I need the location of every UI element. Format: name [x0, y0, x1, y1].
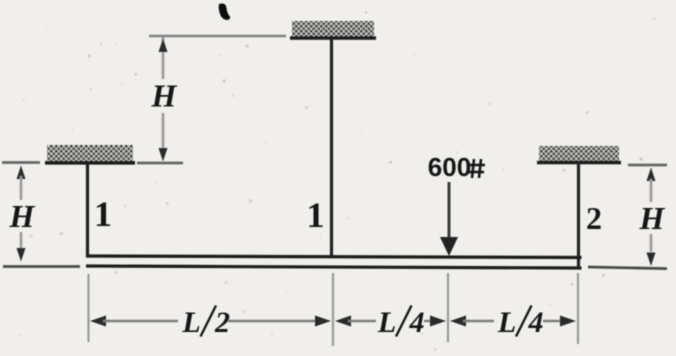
- L/4 first dim left arrowhead: [335, 316, 351, 327]
- top H dim bottom tick: [137, 162, 183, 165]
- top support line: [290, 36, 376, 39]
- svg-text:2: 2: [214, 306, 230, 339]
- svg-text:L: L: [181, 306, 200, 339]
- L/4 first dim right line: [424, 320, 432, 322]
- svg-text:H: H: [639, 200, 666, 236]
- bar 1 middle rod: [330, 38, 333, 257]
- L/2 dim left line: [103, 320, 178, 322]
- top H dim down arrowhead: [159, 148, 168, 162]
- L/4 second dim right line: [543, 320, 562, 322]
- L/4 first dim right arrowhead: [430, 316, 446, 327]
- left wall support (hatched): [47, 145, 133, 161]
- left H dim down arrowhead: [17, 248, 26, 262]
- top H dim upper shaft: [162, 37, 165, 79]
- load arrow shaft: [448, 182, 451, 242]
- left H dim lower shaft: [20, 232, 23, 252]
- left H dim top tick: [2, 161, 40, 164]
- left H dim bottom line: [3, 265, 80, 268]
- right H dim bottom tick: [588, 267, 667, 269]
- L/4 first label: [377, 306, 425, 340]
- L/4 second dim left line: [463, 320, 494, 322]
- beam top line: [86, 256, 582, 258]
- right H dim lower shaft: [650, 234, 653, 252]
- L/2 label: [181, 306, 230, 340]
- L/2 dim right line: [228, 320, 316, 322]
- left H dim upper shaft: [20, 176, 23, 200]
- svg-text:1: 1: [307, 195, 325, 235]
- extension line at left rod: [87, 274, 89, 342]
- bar 1 left rod: [86, 163, 89, 257]
- top H dimension reference line: [149, 35, 286, 38]
- stray ink mark: [219, 4, 231, 21]
- extension line at load point: [447, 273, 449, 342]
- svg-text:2: 2: [586, 200, 602, 236]
- right H dim top tick: [628, 164, 667, 167]
- svg-text:H: H: [9, 198, 36, 234]
- L/4 second label: [497, 306, 544, 340]
- svg-text:1: 1: [94, 194, 112, 234]
- L/4 first dim left line: [348, 320, 376, 322]
- svg-text:4: 4: [528, 306, 544, 339]
- left support line: [45, 161, 135, 165]
- top H dim lower shaft: [162, 113, 165, 157]
- left H dim up arrowhead: [17, 166, 26, 180]
- right H dim up arrowhead: [647, 168, 656, 182]
- right H dim down arrowhead: [647, 253, 656, 267]
- top wall support (hatched): [292, 21, 374, 37]
- L/2 dim right arrowhead: [315, 316, 331, 327]
- right H dim upper shaft: [650, 179, 653, 202]
- svg-text:600: 600: [428, 152, 471, 182]
- L/4 second dim left arrowhead: [450, 316, 466, 327]
- svg-text:L: L: [377, 306, 396, 339]
- L/2 dim left arrowhead: [90, 316, 106, 327]
- load arrowhead: [440, 237, 458, 256]
- right support line: [537, 161, 621, 164]
- extension line at right rod: [577, 273, 579, 344]
- right wall support (hatched): [539, 146, 619, 161]
- pound symbol of load label: [468, 159, 485, 178]
- svg-text:L: L: [497, 306, 516, 339]
- L/4 second dim right arrowhead: [560, 316, 576, 327]
- bar 2 right rod: [577, 162, 580, 267]
- top H dim up arrowhead: [159, 39, 168, 53]
- svg-text:H: H: [151, 78, 178, 114]
- beam bottom line: [86, 266, 582, 268]
- extension line at middle rod: [332, 273, 334, 346]
